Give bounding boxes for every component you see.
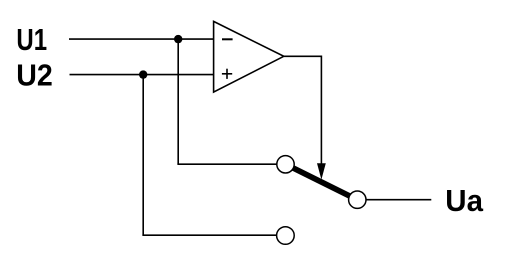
arrowhead onto switch lever (317, 163, 326, 179)
op-amp minus input symbol (222, 38, 233, 40)
wire U1 input (69, 38, 214, 40)
node junction on U1 wire (174, 35, 182, 43)
svg-text:U1: U1 (16, 22, 47, 57)
switch lever (293, 168, 349, 196)
wire op-amp output vertical (320, 56, 322, 165)
wire to upper switch contact (177, 163, 276, 165)
wire U2 input (70, 74, 214, 76)
op-amp comparator (214, 21, 284, 92)
svg-text:Ua: Ua (445, 183, 483, 218)
wire op-amp output horizontal (284, 55, 322, 57)
wire from U1 junction down (177, 39, 179, 164)
switch contact lower (277, 227, 295, 245)
op-amp plus input symbol (222, 73, 232, 75)
switch contact upper-left (277, 156, 294, 173)
wire from U2 junction down (142, 75, 144, 236)
node junction on U2 wire (139, 70, 147, 78)
switch contact output (349, 191, 366, 208)
wire to lower switch contact (142, 234, 276, 236)
svg-text:U2: U2 (16, 58, 53, 93)
wire to Ua (366, 199, 431, 201)
